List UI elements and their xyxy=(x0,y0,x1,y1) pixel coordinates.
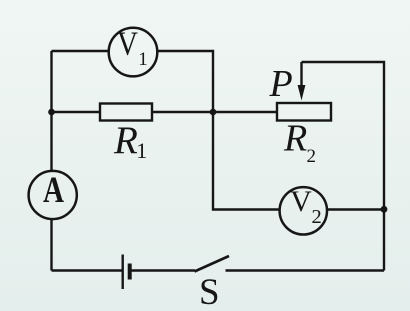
svg-text:V: V xyxy=(290,185,312,218)
svg-text:2: 2 xyxy=(307,146,317,167)
svg-text:1: 1 xyxy=(138,49,148,70)
svg-text:1: 1 xyxy=(136,138,147,163)
svg-text:P: P xyxy=(269,63,293,105)
svg-text:A: A xyxy=(43,169,65,210)
svg-text:R: R xyxy=(113,119,138,162)
svg-text:R: R xyxy=(283,118,307,160)
svg-text:V: V xyxy=(117,25,138,62)
svg-text:S: S xyxy=(199,272,220,311)
svg-text:2: 2 xyxy=(312,206,322,228)
